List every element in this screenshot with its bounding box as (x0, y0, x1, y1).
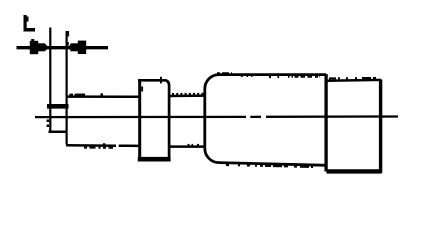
neck bottom edge (169, 145, 207, 148)
cylinder 2 bottom edge (66, 144, 116, 147)
end section right edge (379, 80, 382, 173)
dimension arrowhead right (68, 41, 86, 54)
neck top edge serration (scan noise) (172, 93, 205, 95)
cylinder 2 bottom edge serration (scan noise) (84, 147, 113, 149)
extension line 1 / stub left face (49, 28, 51, 134)
dimension line (17, 46, 109, 49)
flange bottom edge (thick) (138, 157, 171, 162)
neck bottom edge serration (scan noise) (188, 144, 200, 146)
end section bottom edge (thick) (327, 169, 382, 173)
neck top edge (169, 94, 207, 97)
body outline with filleted left corners (205, 75, 327, 166)
flange top edge and right edge with rounded corner (138, 80, 169, 159)
cylinder 2 top edge serration (scan noise) (69, 93, 104, 95)
centerline right segment (266, 115, 398, 118)
body top edge serration (scan noise) (217, 72, 232, 74)
cylinder 2 top edge (66, 95, 141, 98)
centerline short dash (250, 116, 261, 118)
stub top edge (thick) (47, 104, 69, 109)
dimension arrowhead left (30, 39, 49, 54)
extension line 2 / step face stub to cylinder (65, 31, 67, 145)
body bottom edge serration (scan noise) (226, 165, 313, 167)
end section top edge serration (scan noise) (329, 77, 378, 80)
body right edge (324, 74, 327, 172)
flange top tick (scan noise) (160, 77, 162, 84)
flange left edge (138, 79, 141, 160)
stub left face ticks (scan noise) (47, 120, 50, 128)
centerline left segment (35, 116, 246, 118)
stub bottom edge (49, 131, 68, 134)
dimension label L (24, 15, 36, 32)
end section top edge (327, 79, 382, 82)
